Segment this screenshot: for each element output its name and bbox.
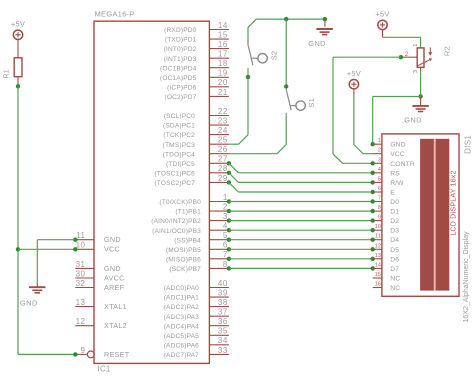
svg-text:D4: D4 — [390, 237, 399, 244]
svg-text:40: 40 — [218, 279, 228, 288]
svg-text:29: 29 — [218, 174, 228, 183]
svg-text:GND: GND — [104, 235, 121, 244]
svg-text:8: 8 — [378, 205, 381, 211]
svg-text:18: 18 — [218, 59, 228, 68]
svg-text:AVCC: AVCC — [104, 273, 125, 282]
svg-text:(T0/XCK)PB0: (T0/XCK)PB0 — [159, 199, 201, 206]
svg-text:(TDI)PC5: (TDI)PC5 — [166, 161, 195, 168]
svg-text:(OC1B)PD4: (OC1B)PD4 — [160, 65, 197, 72]
svg-text:(ADC4)PA4: (ADC4)PA4 — [164, 323, 199, 330]
svg-text:10: 10 — [375, 224, 381, 230]
svg-text:(TDO)PC4: (TDO)PC4 — [163, 151, 196, 158]
svg-text:D0: D0 — [390, 199, 399, 206]
svg-text:RS: RS — [390, 170, 400, 177]
svg-text:6: 6 — [378, 186, 381, 192]
svg-text:(OC2)PD7: (OC2)PD7 — [165, 94, 197, 101]
svg-text:27: 27 — [218, 155, 228, 164]
svg-text:14: 14 — [218, 21, 228, 30]
svg-text:(AIN1/OC0)PB3: (AIN1/OC0)PB3 — [152, 228, 201, 235]
svg-text:E: E — [390, 190, 395, 197]
svg-text:(MISO)PB6: (MISO)PB6 — [166, 256, 201, 263]
svg-text:XTAL2: XTAL2 — [104, 321, 127, 330]
svg-text:(INT1)PD3: (INT1)PD3 — [164, 56, 197, 63]
svg-text:(ADC2)PA2: (ADC2)PA2 — [164, 304, 199, 311]
svg-text:D5: D5 — [390, 247, 399, 254]
svg-text:(SDA)PC1: (SDA)PC1 — [163, 123, 195, 130]
svg-text:38: 38 — [218, 298, 228, 307]
svg-text:(ADC7)PA7: (ADC7)PA7 — [164, 352, 199, 359]
svg-text:MEGA16-P: MEGA16-P — [95, 10, 135, 19]
svg-text:D6: D6 — [390, 256, 399, 263]
svg-text:15: 15 — [375, 272, 381, 278]
svg-text:12: 12 — [76, 317, 86, 326]
svg-text:(ADC1)PA1: (ADC1)PA1 — [164, 295, 199, 302]
svg-text:2: 2 — [378, 148, 381, 154]
svg-text:(INT0)PD2: (INT0)PD2 — [164, 46, 197, 53]
svg-text:33: 33 — [218, 346, 228, 355]
svg-text:S2: S2 — [269, 51, 278, 61]
svg-text:XTAL1: XTAL1 — [104, 302, 127, 311]
svg-text:16: 16 — [218, 40, 228, 49]
svg-text:34: 34 — [218, 336, 228, 345]
svg-text:CONTR: CONTR — [390, 161, 415, 168]
svg-text:D2: D2 — [390, 218, 399, 225]
svg-text:(SS)PB4: (SS)PB4 — [174, 237, 201, 244]
svg-text:13: 13 — [76, 298, 86, 307]
svg-text:(TXD)PD1: (TXD)PD1 — [165, 37, 197, 44]
svg-text:37: 37 — [218, 308, 228, 317]
svg-text:(SCL)PC0: (SCL)PC0 — [164, 113, 195, 120]
svg-text:D7: D7 — [390, 266, 399, 273]
svg-text:R2: R2 — [442, 46, 451, 56]
svg-text:11: 11 — [76, 231, 85, 240]
svg-text:(SCK)PB7: (SCK)PB7 — [169, 266, 201, 273]
svg-text:20: 20 — [218, 78, 228, 87]
svg-text:R/W: R/W — [390, 180, 404, 187]
svg-text:11: 11 — [375, 234, 381, 240]
svg-text:GND: GND — [104, 264, 121, 273]
svg-text:36: 36 — [218, 317, 228, 326]
svg-text:R1: R1 — [4, 69, 11, 78]
svg-text:(ADC6)PA6: (ADC6)PA6 — [164, 342, 199, 349]
svg-text:(TMS)PC3: (TMS)PC3 — [163, 142, 196, 149]
svg-text:DIS1: DIS1 — [463, 135, 472, 154]
svg-text:(TCK)PC2: (TCK)PC2 — [163, 132, 195, 139]
svg-text:7: 7 — [378, 196, 381, 202]
svg-text:3: 3 — [413, 70, 419, 73]
svg-text:GND: GND — [390, 142, 405, 149]
svg-text:GND: GND — [404, 116, 422, 125]
svg-text:+5V: +5V — [375, 10, 389, 19]
svg-text:4: 4 — [378, 167, 381, 173]
svg-text:RESET: RESET — [104, 350, 130, 359]
svg-text:3: 3 — [378, 157, 381, 163]
svg-text:(MOSI)PB5: (MOSI)PB5 — [166, 247, 201, 254]
svg-text:VCC: VCC — [104, 245, 120, 254]
svg-text:NC: NC — [390, 285, 400, 292]
svg-text:GND: GND — [308, 39, 326, 48]
svg-text:9: 9 — [81, 346, 86, 355]
svg-text:31: 31 — [76, 260, 86, 269]
svg-text:(T1)PB1: (T1)PB1 — [175, 209, 201, 216]
svg-text:(TOSC2)PC7: (TOSC2)PC7 — [154, 180, 195, 187]
svg-text:(ADC3)PA3: (ADC3)PA3 — [164, 314, 199, 321]
svg-text:5: 5 — [378, 176, 381, 182]
svg-text:26: 26 — [218, 145, 228, 154]
svg-text:17: 17 — [218, 50, 228, 59]
svg-text:30: 30 — [76, 269, 86, 278]
svg-text:21: 21 — [218, 88, 228, 97]
svg-text:1: 1 — [413, 44, 419, 47]
svg-text:12: 12 — [375, 243, 381, 249]
svg-text:AREF: AREF — [104, 283, 125, 292]
svg-text:IC1: IC1 — [98, 364, 111, 373]
svg-text:D1: D1 — [390, 209, 399, 216]
svg-text:25: 25 — [218, 136, 228, 145]
svg-text:NC: NC — [390, 276, 400, 283]
svg-text:32: 32 — [76, 279, 86, 288]
svg-text:(ADC0)PA0: (ADC0)PA0 — [164, 285, 199, 292]
svg-text:(ICP)PD6: (ICP)PD6 — [167, 84, 197, 91]
svg-text:GND: GND — [20, 299, 38, 308]
svg-text:39: 39 — [218, 289, 228, 298]
svg-text:+5V: +5V — [347, 69, 361, 78]
svg-text:(TOSC1)PC6: (TOSC1)PC6 — [154, 170, 195, 177]
svg-text:35: 35 — [218, 327, 228, 336]
svg-text:16X2_AlphaNumeric_Display: 16X2_AlphaNumeric_Display — [463, 231, 470, 323]
svg-text:23: 23 — [218, 117, 228, 126]
svg-text:(OC1A)PD5: (OC1A)PD5 — [160, 75, 197, 82]
svg-text:14: 14 — [375, 262, 381, 268]
svg-text:D3: D3 — [390, 228, 399, 235]
svg-text:VCC: VCC — [390, 151, 405, 158]
svg-text:S1: S1 — [307, 98, 316, 108]
svg-text:9: 9 — [378, 215, 381, 221]
svg-text:22: 22 — [218, 107, 228, 116]
svg-text:15: 15 — [218, 31, 228, 40]
svg-text:(RXD)PD0: (RXD)PD0 — [164, 27, 197, 34]
svg-text:(AIN0/INT2)PB2: (AIN0/INT2)PB2 — [151, 218, 201, 225]
svg-text:24: 24 — [218, 126, 228, 135]
svg-text:19: 19 — [218, 69, 228, 78]
svg-text:+5V: +5V — [11, 20, 25, 29]
svg-text:13: 13 — [375, 253, 381, 259]
svg-text:28: 28 — [218, 164, 228, 173]
svg-text:16: 16 — [375, 282, 381, 288]
svg-text:(ADC5)PA5: (ADC5)PA5 — [164, 333, 199, 340]
svg-text:1: 1 — [378, 138, 381, 144]
svg-text:LCD DISPLAY 16x2: LCD DISPLAY 16x2 — [451, 170, 458, 235]
